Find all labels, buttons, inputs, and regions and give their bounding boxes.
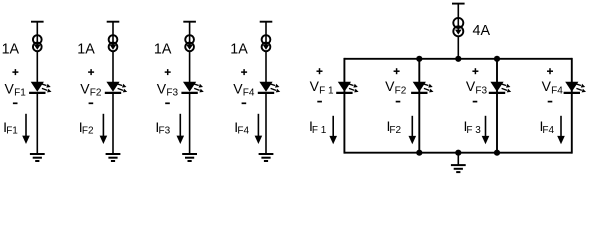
plus label (branch 4) bbox=[547, 68, 553, 74]
LED VF1 (parallel branch 1) bbox=[336, 82, 358, 93]
LED VF2 (parallel branch 2) bbox=[411, 82, 433, 93]
plus label (branch 1) bbox=[317, 68, 323, 74]
wire (LED to ground, circuit 3) bbox=[189, 94, 191, 154]
wire bottom rail bbox=[344, 152, 571, 154]
label 1A (circuit 3) bbox=[154, 41, 172, 57]
current arrow IF4 bbox=[255, 114, 263, 144]
plus label (branch 3) bbox=[472, 68, 478, 74]
svg-text:F4: F4 bbox=[551, 86, 563, 97]
current arrow IF3 bbox=[177, 114, 185, 144]
wire (4A source to top rail) bbox=[457, 36, 459, 59]
wire (LED to ground, circuit 2) bbox=[112, 94, 114, 154]
svg-text:F2: F2 bbox=[389, 125, 401, 136]
current arrow IF1 (parallel) bbox=[329, 116, 337, 145]
ground bbox=[451, 165, 466, 172]
svg-text:F 1: F 1 bbox=[312, 125, 327, 136]
svg-text:1A: 1A bbox=[77, 41, 95, 57]
svg-text:F4: F4 bbox=[243, 88, 255, 99]
wire (into 4A (parallel circuit)) bbox=[457, 4, 459, 30]
label IF 1 (branch 1) bbox=[309, 118, 327, 136]
terminal bar (1A (circuit 1)) bbox=[31, 21, 44, 23]
current source 1A (circuit 2) bbox=[109, 35, 118, 51]
plus label (circuit 4) bbox=[241, 69, 247, 75]
svg-text:1A: 1A bbox=[230, 41, 248, 57]
svg-text:F2: F2 bbox=[82, 125, 94, 136]
wire (into 1A (circuit 3)) bbox=[189, 22, 191, 46]
label 1A (circuit 2) bbox=[77, 41, 95, 57]
svg-text:4A: 4A bbox=[473, 23, 491, 39]
wire (LED to ground, circuit 1) bbox=[36, 94, 38, 154]
junction dot (bottom rail, branch 2) bbox=[416, 150, 422, 156]
svg-text:V: V bbox=[157, 80, 167, 96]
svg-text:V: V bbox=[542, 78, 552, 94]
wire branch 1 (top rail to bottom rail) bbox=[343, 58, 345, 154]
label VF3 (circuit 3) bbox=[157, 80, 179, 98]
LED VF4 (parallel branch 4) bbox=[564, 82, 586, 93]
label VF2 (branch 2) bbox=[385, 78, 407, 96]
wire branch 3 (top rail to bottom rail) bbox=[496, 58, 498, 154]
label VF2 (circuit 2) bbox=[80, 80, 102, 98]
svg-text:1A: 1A bbox=[2, 41, 20, 57]
ground bbox=[30, 154, 45, 161]
label VF4 (circuit 4) bbox=[233, 80, 255, 98]
LED VF3 (parallel branch 3) bbox=[489, 82, 511, 93]
svg-text:V: V bbox=[80, 80, 90, 96]
current arrow IF2 bbox=[100, 114, 108, 144]
junction dot (top rail, branch 2) bbox=[416, 56, 422, 62]
junction dot (bottom rail, ground) bbox=[455, 150, 461, 156]
label IF2 (branch 2) bbox=[387, 118, 402, 136]
ground bbox=[106, 154, 121, 161]
svg-text:F3: F3 bbox=[166, 88, 178, 99]
plus label (circuit 3) bbox=[165, 69, 171, 75]
ground bbox=[182, 154, 197, 161]
wire branch 2 (top rail to bottom rail) bbox=[418, 58, 420, 154]
current source 4A (parallel circuit) bbox=[453, 18, 463, 36]
label IF1 (circuit 1) bbox=[3, 119, 18, 137]
label IF4 (branch 4) bbox=[540, 118, 555, 136]
svg-text:F4: F4 bbox=[542, 125, 554, 136]
svg-text:F2: F2 bbox=[90, 88, 102, 99]
svg-text:F1: F1 bbox=[6, 125, 18, 136]
minus label (branch 2) bbox=[396, 101, 401, 103]
label IF3 (circuit 3) bbox=[155, 119, 170, 137]
label VF3 (branch 3) bbox=[466, 78, 488, 96]
svg-text:V: V bbox=[233, 80, 243, 96]
wire branch 4 (top rail to bottom rail) bbox=[571, 58, 573, 154]
minus label (circuit 2) bbox=[89, 102, 94, 104]
wire (bottom rail to ground) bbox=[457, 153, 459, 165]
label 1A (circuit 4) bbox=[230, 41, 248, 57]
current arrow IF2 (parallel) bbox=[409, 116, 417, 145]
minus label (circuit 1) bbox=[13, 102, 18, 104]
wire (LED to ground, circuit 4) bbox=[265, 94, 267, 154]
svg-text:F3: F3 bbox=[159, 125, 171, 136]
svg-text:V: V bbox=[466, 78, 476, 94]
svg-text:1A: 1A bbox=[154, 41, 172, 57]
minus label (branch 1) bbox=[317, 101, 322, 103]
terminal bar (1A (circuit 3)) bbox=[183, 21, 196, 23]
label IF2 (circuit 2) bbox=[79, 119, 94, 137]
wire (source to LED, circuit 1) bbox=[36, 52, 38, 82]
junction dot (top rail, source) bbox=[455, 56, 461, 62]
LED VF1 (circuit 1) bbox=[29, 82, 51, 93]
label VF 1 (branch 1) bbox=[310, 78, 334, 96]
svg-text:F3: F3 bbox=[475, 86, 487, 97]
terminal bar (4A (parallel circuit)) bbox=[452, 3, 465, 5]
label VF4 (branch 4) bbox=[542, 78, 564, 96]
minus label (circuit 3) bbox=[165, 102, 170, 104]
svg-text:V: V bbox=[5, 80, 15, 96]
minus label (branch 3) bbox=[473, 101, 478, 103]
wire (into 1A (circuit 4)) bbox=[265, 22, 267, 46]
wire (source to LED, circuit 4) bbox=[265, 52, 267, 82]
junction dot (top rail, branch 3) bbox=[494, 56, 500, 62]
LED VF4 (circuit 4) bbox=[258, 82, 280, 93]
LED VF3 (circuit 3) bbox=[181, 82, 203, 93]
current source 1A (circuit 1) bbox=[33, 35, 42, 51]
LED VF2 (circuit 2) bbox=[105, 82, 127, 93]
label 1A (circuit 1) bbox=[2, 41, 20, 57]
wire (source to LED, circuit 2) bbox=[112, 52, 114, 82]
svg-text:F1: F1 bbox=[14, 88, 26, 99]
current arrow IF3 (parallel) bbox=[482, 116, 490, 145]
terminal bar (1A (circuit 2)) bbox=[107, 21, 120, 23]
plus label (circuit 1) bbox=[12, 69, 18, 75]
plus label (branch 2) bbox=[394, 68, 400, 74]
wire top rail bbox=[344, 58, 571, 60]
current source 1A (circuit 4) bbox=[262, 35, 271, 51]
label 4A bbox=[473, 23, 491, 39]
label VF1 (circuit 1) bbox=[5, 80, 27, 98]
svg-text:F2: F2 bbox=[395, 86, 407, 97]
wire (source to LED, circuit 3) bbox=[189, 52, 191, 82]
minus label (branch 4) bbox=[548, 101, 553, 103]
label IF4 (circuit 4) bbox=[234, 119, 249, 137]
svg-text:F 3: F 3 bbox=[466, 125, 481, 136]
current source 1A (circuit 3) bbox=[185, 35, 194, 51]
wire (into 1A (circuit 2)) bbox=[112, 22, 114, 46]
current arrow IF1 bbox=[22, 114, 30, 144]
label IF 3 (branch 3) bbox=[464, 118, 482, 136]
current arrow IF4 (parallel) bbox=[557, 116, 565, 145]
wire (into 1A (circuit 1)) bbox=[36, 22, 38, 46]
plus label (circuit 2) bbox=[88, 69, 94, 75]
minus label (circuit 4) bbox=[242, 102, 247, 104]
svg-text:F 1: F 1 bbox=[319, 86, 334, 97]
ground bbox=[259, 154, 274, 161]
svg-text:F4: F4 bbox=[237, 125, 249, 136]
svg-text:V: V bbox=[385, 78, 395, 94]
terminal bar (1A (circuit 4)) bbox=[260, 21, 273, 23]
svg-text:V: V bbox=[310, 78, 320, 94]
junction dot (bottom rail, branch 3) bbox=[494, 150, 500, 156]
